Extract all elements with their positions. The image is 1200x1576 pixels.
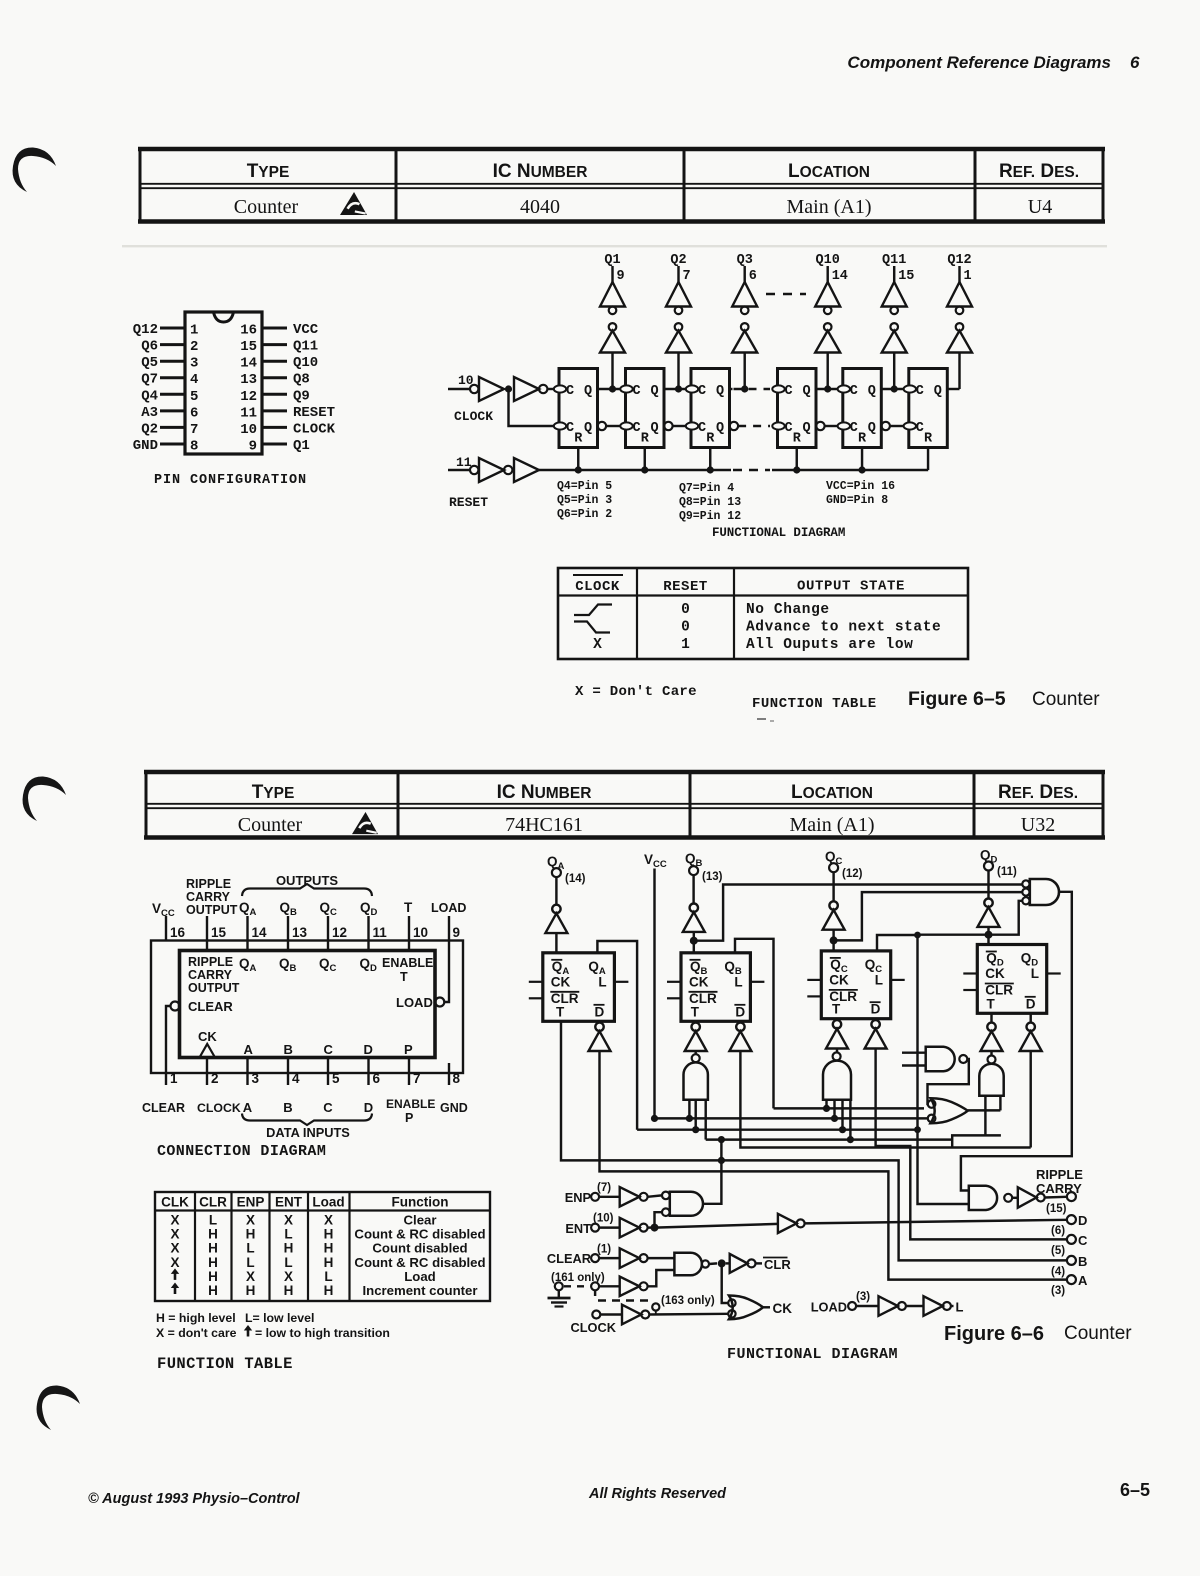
IC U32 function block	[180, 951, 436, 1058]
wire ENT bus to mid inverter	[648, 1224, 778, 1228]
svg-text:FUNCTION TABLE: FUNCTION TABLE	[752, 696, 877, 712]
net VCC line	[644, 852, 667, 1122]
function table U4 headers	[573, 575, 905, 595]
pin 13 QB stub	[280, 900, 308, 951]
NAND gate H (feeds OR)	[902, 1047, 967, 1072]
svg-text:Q6: Q6	[141, 339, 158, 355]
svg-text:1: 1	[681, 637, 690, 653]
svg-text:3: 3	[252, 1071, 260, 1086]
junction QC-bar node	[830, 936, 838, 944]
inverter 161-only	[599, 1277, 648, 1297]
junction clock node	[505, 385, 512, 392]
ESD warning symbol table 2	[352, 812, 378, 834]
svg-text:Main (A1): Main (A1)	[790, 814, 875, 836]
svg-text:16: 16	[170, 925, 186, 940]
svg-text:(1): (1)	[597, 1244, 611, 1256]
svg-text:4: 4	[292, 1071, 300, 1086]
inverter FFA D-bar input	[589, 1021, 611, 1051]
pin 9 Q1	[249, 438, 310, 455]
label RESET	[449, 495, 488, 510]
block label RIPPLE CARRY OUTPUT	[188, 955, 240, 995]
svg-text:Figure 6–5: Figure 6–5	[908, 688, 1006, 710]
svg-text:LOCATION: LOCATION	[788, 161, 870, 182]
wire FFA D-bar to bus A	[600, 1051, 1067, 1280]
svg-text:R: R	[574, 432, 583, 447]
output buffer pair Q12	[947, 253, 972, 389]
inverter FFB D-bar input	[729, 1021, 751, 1051]
svg-text:C: C	[633, 384, 641, 399]
pin 6 A3	[141, 405, 198, 422]
svg-text:QB: QB	[280, 900, 298, 918]
svg-text:C: C	[324, 1042, 334, 1057]
wire internal bus vertical to NAND input	[918, 935, 969, 1204]
svg-text:X: X	[284, 1213, 293, 1228]
svg-text:CLOCK: CLOCK	[293, 421, 336, 437]
svg-text:X: X	[284, 1269, 293, 1284]
junction ENT node	[651, 1224, 659, 1232]
svg-text:X: X	[324, 1213, 333, 1228]
svg-text:Q: Q	[584, 421, 592, 436]
svg-text:(3): (3)	[1051, 1285, 1065, 1297]
svg-text:Function: Function	[392, 1195, 449, 1210]
svg-text:H = high level: H = high level	[156, 1311, 236, 1325]
page header title	[847, 53, 1140, 72]
svg-text:Q5: Q5	[141, 355, 158, 371]
svg-text:Q11: Q11	[293, 339, 318, 355]
svg-text:All Rights Reserved: All Rights Reserved	[588, 1486, 727, 1502]
svg-text:U4: U4	[1028, 196, 1052, 218]
svg-text:C: C	[566, 421, 574, 436]
svg-text:REF. DES.: REF. DES.	[998, 782, 1078, 803]
svg-text:Q10: Q10	[293, 355, 318, 371]
svg-text:13: 13	[292, 925, 308, 940]
ripple carry NAND gate	[969, 1186, 1012, 1210]
wire FFB D-bar drop	[740, 1051, 1030, 1148]
flip-flop FFB (74HC161)	[667, 953, 764, 1022]
inverter CLEAR	[620, 1248, 675, 1268]
function table U32 headers	[161, 1195, 448, 1210]
svg-text:QB: QB	[279, 956, 297, 974]
svg-text:ENT: ENT	[275, 1195, 303, 1210]
inverter QA output buffer	[545, 877, 567, 953]
svg-text:CLEAR: CLEAR	[547, 1251, 591, 1266]
svg-text:L: L	[875, 972, 883, 987]
svg-text:12: 12	[240, 389, 257, 405]
svg-text:6: 6	[749, 269, 757, 284]
svg-text:CLOCK: CLOCK	[454, 409, 493, 424]
svg-text:CONNECTION DIAGRAM: CONNECTION DIAGRAM	[157, 1143, 326, 1160]
svg-text:(10): (10)	[593, 1213, 614, 1225]
inverter FFC D-bar input	[865, 1019, 887, 1049]
function table U32 rows	[170, 1213, 485, 1299]
stray mark under caption	[757, 719, 774, 721]
svg-text:Count & RC disabled: Count & RC disabled	[354, 1227, 485, 1242]
svg-text:16: 16	[240, 323, 257, 339]
wire reset bus	[539, 469, 928, 471]
svg-text:74HC161: 74HC161	[505, 814, 583, 836]
svg-text:1: 1	[170, 1071, 178, 1086]
pin 8 GND stub	[440, 1063, 468, 1115]
svg-text:D: D	[871, 1002, 881, 1017]
wire FF5 reset	[858, 448, 865, 474]
svg-text:C: C	[323, 1100, 333, 1115]
block label CLEAR with bubble	[171, 999, 234, 1014]
pin 3 Q5	[141, 355, 198, 372]
svg-text:FUNCTIONAL DIAGRAM: FUNCTIONAL DIAGRAM	[712, 526, 845, 540]
function table U32 box	[155, 1192, 490, 1301]
svg-text:L: L	[284, 1255, 292, 1270]
svg-text:A: A	[243, 1100, 253, 1115]
wire FFB Q output drop	[735, 939, 774, 1109]
svg-text:(12): (12)	[842, 868, 863, 880]
block labels QA QB QC QD / ENABLE T	[239, 956, 433, 984]
flip-flop FFC (74HC161)	[807, 951, 904, 1019]
svg-text:C: C	[698, 384, 706, 399]
svg-text:CARRY: CARRY	[186, 890, 231, 904]
svg-text:(6): (6)	[1051, 1225, 1065, 1237]
svg-text:L: L	[246, 1241, 254, 1256]
wires FFB NAND legs	[686, 1100, 706, 1140]
svg-text:CLOCK: CLOCK	[197, 1101, 241, 1115]
OR gate (CK feedback)	[928, 1098, 968, 1123]
junction QB-bar node	[690, 937, 698, 945]
node CLEAR input (1)	[547, 1244, 620, 1267]
svg-text:C: C	[850, 384, 858, 399]
pin 14 Q10	[240, 355, 318, 372]
svg-text:6–5: 6–5	[1120, 1480, 1150, 1500]
svg-text:CK: CK	[198, 1029, 217, 1044]
inverter ripple carry output	[1012, 1187, 1066, 1207]
svg-text:(5): (5)	[1051, 1245, 1065, 1257]
svg-text:Q: Q	[584, 384, 592, 399]
svg-text:LOAD: LOAD	[811, 1300, 847, 1315]
svg-text:Q: Q	[868, 421, 876, 436]
pin 4 Q7	[141, 372, 198, 389]
svg-text:LOAD: LOAD	[396, 995, 433, 1010]
junction QD-bar node	[985, 931, 993, 939]
svg-text:Q: Q	[716, 384, 724, 399]
node D terminal (6)	[1051, 1213, 1087, 1237]
inverter QB output buffer	[683, 875, 705, 953]
svg-text:OUTPUT: OUTPUT	[186, 903, 238, 917]
inverter FFB T input	[685, 1021, 707, 1054]
svg-text:Q12: Q12	[133, 322, 158, 338]
svg-text:OUTPUT: OUTPUT	[188, 981, 240, 995]
svg-text:CLEAR: CLEAR	[188, 999, 233, 1014]
caption Figure 6-6 Counter	[944, 1323, 1132, 1345]
svg-text:C: C	[633, 421, 641, 436]
node QB output terminal (13)	[685, 851, 723, 883]
svg-text:D: D	[595, 1004, 605, 1019]
svg-text:Q11: Q11	[882, 253, 906, 268]
svg-text:No Change: No Change	[746, 602, 830, 618]
svg-text:D: D	[1026, 996, 1036, 1011]
svg-text:12: 12	[332, 925, 347, 940]
svg-text:Q4=Pin 5: Q4=Pin 5	[557, 480, 612, 493]
svg-text:5: 5	[332, 1071, 340, 1086]
svg-text:C: C	[785, 421, 793, 436]
inverter CLR output	[730, 1254, 762, 1273]
wire FFC Q output riser	[877, 932, 921, 951]
pin 10 T stub	[404, 900, 428, 951]
label DATA INPUTS with brace	[242, 1114, 372, 1141]
svg-text:A: A	[1078, 1273, 1088, 1288]
svg-text:VCC: VCC	[644, 852, 667, 870]
svg-text:X: X	[246, 1213, 255, 1228]
svg-text:Q6=Pin 2: Q6=Pin 2	[557, 508, 612, 521]
svg-text:Counter: Counter	[238, 814, 303, 836]
node ENT input (10)	[565, 1213, 619, 1237]
note VCC GND pin map	[826, 480, 895, 507]
svg-text:L= low level: L= low level	[245, 1311, 314, 1325]
svg-text:P: P	[405, 1111, 413, 1125]
footer page number 6-5	[1120, 1480, 1150, 1500]
svg-text:H: H	[324, 1255, 334, 1270]
node QA output terminal (14)	[547, 854, 586, 885]
wire FFC D-bar to C terminal	[876, 1049, 1067, 1240]
svg-text:H: H	[246, 1283, 256, 1298]
svg-text:C: C	[916, 421, 924, 436]
svg-text:Q8: Q8	[293, 372, 310, 388]
svg-text:X: X	[593, 637, 602, 653]
wire QD-bar to AND input 3	[989, 901, 1023, 935]
ESD warning symbol table 1	[340, 192, 367, 215]
flip-flop FF6	[904, 369, 948, 448]
svg-text:4040: 4040	[520, 196, 560, 218]
svg-text:Q: Q	[651, 421, 659, 436]
caption PIN CONFIGURATION	[154, 473, 307, 488]
pin 11 QD stub	[360, 900, 387, 951]
svg-text:8: 8	[190, 439, 198, 455]
svg-text:(163 only): (163 only)	[661, 1295, 715, 1307]
wire clock to second rank	[509, 389, 555, 426]
wire bus ENP row	[706, 1138, 953, 1140]
svg-text:Q: Q	[803, 421, 811, 436]
svg-text:L: L	[209, 1213, 217, 1228]
wire 161-only to CLEAR NAND	[648, 1270, 675, 1286]
svg-text:CK: CK	[773, 1301, 793, 1316]
label L	[956, 1300, 964, 1315]
svg-text:H: H	[208, 1255, 218, 1270]
svg-text:R: R	[641, 432, 650, 447]
svg-text:ENP: ENP	[565, 1190, 592, 1205]
block label LOAD with bubble	[396, 995, 444, 1010]
svg-text:CARRY: CARRY	[1036, 1181, 1082, 1196]
svg-text:= low to high transition: = low to high transition	[255, 1326, 390, 1340]
svg-text:Q2: Q2	[670, 253, 686, 268]
pin 7 ENABLE P stub	[386, 1058, 435, 1126]
wire QC-bar to AND input 2	[834, 892, 1023, 940]
svg-text:Q12: Q12	[947, 253, 971, 268]
label CLOCK	[454, 409, 493, 424]
svg-text:Q7: Q7	[141, 372, 158, 388]
OR gate CK	[728, 1296, 770, 1320]
svg-text:T: T	[556, 1004, 565, 1019]
svg-text:T: T	[404, 900, 413, 915]
svg-text:CLOCK: CLOCK	[571, 1320, 617, 1335]
svg-text:15: 15	[211, 925, 227, 940]
svg-text:CK: CK	[985, 966, 1005, 981]
junction CLR node	[709, 1259, 730, 1267]
svg-text:10: 10	[413, 925, 428, 940]
footer copyright	[88, 1491, 301, 1507]
svg-text:DATA INPUTS: DATA INPUTS	[266, 1125, 350, 1140]
pin 10 CLOCK	[240, 421, 335, 438]
svg-text:Q: Q	[868, 384, 876, 399]
svg-text:5: 5	[190, 389, 198, 405]
wire FFA T to bus	[561, 1021, 1067, 1260]
inverter FFD D-bar input	[1020, 1013, 1042, 1147]
scan streak under table 1	[122, 245, 1107, 247]
svg-text:6: 6	[373, 1071, 381, 1086]
note X = Don't Care	[575, 684, 697, 700]
block labels A B C D P	[244, 1042, 414, 1057]
node A terminal (3)	[1051, 1273, 1088, 1297]
svg-text:Count disabled: Count disabled	[372, 1241, 467, 1256]
svg-text:8: 8	[453, 1071, 461, 1086]
svg-text:QC: QC	[319, 956, 337, 974]
svg-text:1: 1	[190, 323, 198, 339]
svg-text:OUTPUTS: OUTPUTS	[276, 873, 338, 888]
pin 2 Q6	[141, 339, 198, 356]
pin 2 CLOCK stub	[197, 1058, 241, 1116]
caption FUNCTIONAL DIAGRAM (U4)	[712, 526, 845, 540]
pin 15 Q11	[240, 339, 318, 356]
pin 5 Q4	[141, 388, 198, 405]
svg-text:14: 14	[832, 269, 848, 284]
flip-flop FF5	[838, 369, 890, 448]
svg-text:B: B	[1078, 1254, 1087, 1269]
caption FUNCTION TABLE (U32)	[157, 1355, 293, 1373]
svg-text:H: H	[246, 1227, 256, 1242]
label CK	[773, 1301, 793, 1316]
svg-text:ENT: ENT	[565, 1221, 591, 1236]
wire NAND H output wrap to OR input	[928, 1059, 969, 1104]
output buffer pair Q10	[815, 253, 848, 393]
wire bus VCC row	[655, 1117, 928, 1119]
svg-text:(14): (14)	[565, 873, 586, 885]
inverter reset buffer 2	[514, 458, 539, 482]
function table U4 box	[558, 568, 968, 659]
svg-text:RESET: RESET	[449, 495, 488, 510]
svg-text:15: 15	[240, 339, 257, 355]
wires FFC AND legs staircase	[823, 1100, 854, 1144]
svg-text:CLR: CLR	[551, 991, 579, 1006]
wire ENT to AND input 2	[655, 1212, 663, 1227]
svg-text:QA: QA	[547, 854, 565, 872]
svg-text:Load: Load	[312, 1195, 344, 1210]
pin 3 A stub	[243, 1058, 260, 1116]
svg-text:C: C	[566, 384, 574, 399]
svg-text:T: T	[832, 1002, 841, 1017]
svg-text:X: X	[246, 1269, 255, 1284]
svg-text:B: B	[283, 1100, 292, 1115]
inverter QD output buffer	[978, 871, 1000, 945]
svg-text:U32: U32	[1021, 814, 1055, 836]
node CLOCK input	[571, 1311, 623, 1336]
svg-text:GND: GND	[133, 438, 158, 454]
scan artifact crescent mid-left	[23, 776, 66, 821]
pin 1 Q12	[133, 322, 199, 339]
svg-text:D: D	[1078, 1213, 1087, 1228]
wire Q-bar chain row2	[606, 425, 903, 427]
svg-text:7: 7	[190, 422, 198, 438]
node ENP input (7)	[565, 1182, 620, 1205]
waveform falling edge symbol	[574, 622, 610, 633]
svg-text:Clear: Clear	[404, 1213, 437, 1228]
svg-text:Q9=Pin 12: Q9=Pin 12	[679, 510, 741, 523]
pin 1 CLEAR wire	[142, 1006, 185, 1115]
svg-text:CLEAR: CLEAR	[142, 1101, 185, 1115]
pin 15 ripple carry output stub	[186, 877, 238, 951]
svg-text:RIPPLE: RIPPLE	[186, 877, 231, 891]
svg-text:(11): (11)	[997, 866, 1017, 878]
svg-text:2: 2	[211, 1071, 219, 1086]
svg-text:X = Don't Care: X = Don't Care	[575, 684, 697, 700]
svg-text:2: 2	[190, 339, 198, 355]
svg-text:6: 6	[190, 405, 198, 421]
svg-text:H: H	[208, 1283, 218, 1298]
svg-text:B: B	[284, 1042, 293, 1057]
inverter FFC T input	[826, 1019, 848, 1053]
output buffer pair Q2	[666, 253, 691, 393]
svg-text:Q5=Pin 3: Q5=Pin 3	[557, 494, 612, 507]
svg-text:14: 14	[240, 356, 257, 372]
svg-text:CLOCK: CLOCK	[575, 579, 620, 595]
svg-text:D: D	[364, 1100, 373, 1115]
svg-text:H: H	[208, 1269, 218, 1284]
svg-text:Q: Q	[803, 384, 811, 399]
IC U4 4040 DIP-16 package outline	[185, 312, 262, 454]
svg-text:Q10: Q10	[816, 253, 840, 268]
inverter LOAD 2	[924, 1296, 954, 1316]
svg-text:QC: QC	[320, 900, 338, 918]
svg-text:H: H	[208, 1227, 218, 1242]
table: U32 header (TYPE / IC NUMBER / LOCATION / REF. DES.)	[144, 772, 1105, 838]
flip-flop FF4	[772, 369, 824, 448]
svg-text:IC NUMBER: IC NUMBER	[493, 161, 588, 182]
svg-text:Counter: Counter	[1064, 1323, 1132, 1344]
inverter clock buffer 1	[479, 377, 504, 401]
flip-flop FFA (74HC161)	[529, 953, 629, 1022]
svg-text:© August 1993 Physio–Control: © August 1993 Physio–Control	[88, 1491, 301, 1507]
note (163 only)	[661, 1295, 715, 1307]
svg-text:11: 11	[240, 405, 257, 421]
svg-text:(7): (7)	[597, 1182, 611, 1194]
svg-text:H: H	[324, 1227, 334, 1242]
IC U32 connection diagram package outline	[151, 941, 463, 1074]
note (161 only)	[551, 1272, 605, 1284]
svg-text:QA: QA	[239, 900, 257, 918]
svg-text:CLK: CLK	[161, 1195, 189, 1210]
pin 4 B stub	[283, 1058, 300, 1116]
scan artifact crescent bottom-left	[37, 1385, 80, 1430]
pin 6 D stub	[364, 1058, 381, 1116]
pin 8 GND	[133, 438, 199, 455]
node QC output terminal (12)	[825, 849, 863, 880]
svg-text:(3): (3)	[856, 1291, 870, 1303]
svg-text:QD: QD	[360, 900, 378, 918]
note Q4 Q5 Q6 pin map	[557, 480, 612, 521]
svg-text:Q9: Q9	[293, 388, 310, 404]
table: U4 header (TYPE / IC NUMBER / LOCATION / REF. DES.)	[138, 149, 1105, 222]
inverter QC output buffer	[823, 872, 845, 951]
pin 16 VCC stub	[152, 901, 186, 941]
svg-text:L: L	[1031, 966, 1039, 981]
pin 11 RESET	[240, 405, 335, 422]
svg-text:CK: CK	[829, 972, 849, 987]
wire bus QA-out row	[637, 1126, 921, 1133]
